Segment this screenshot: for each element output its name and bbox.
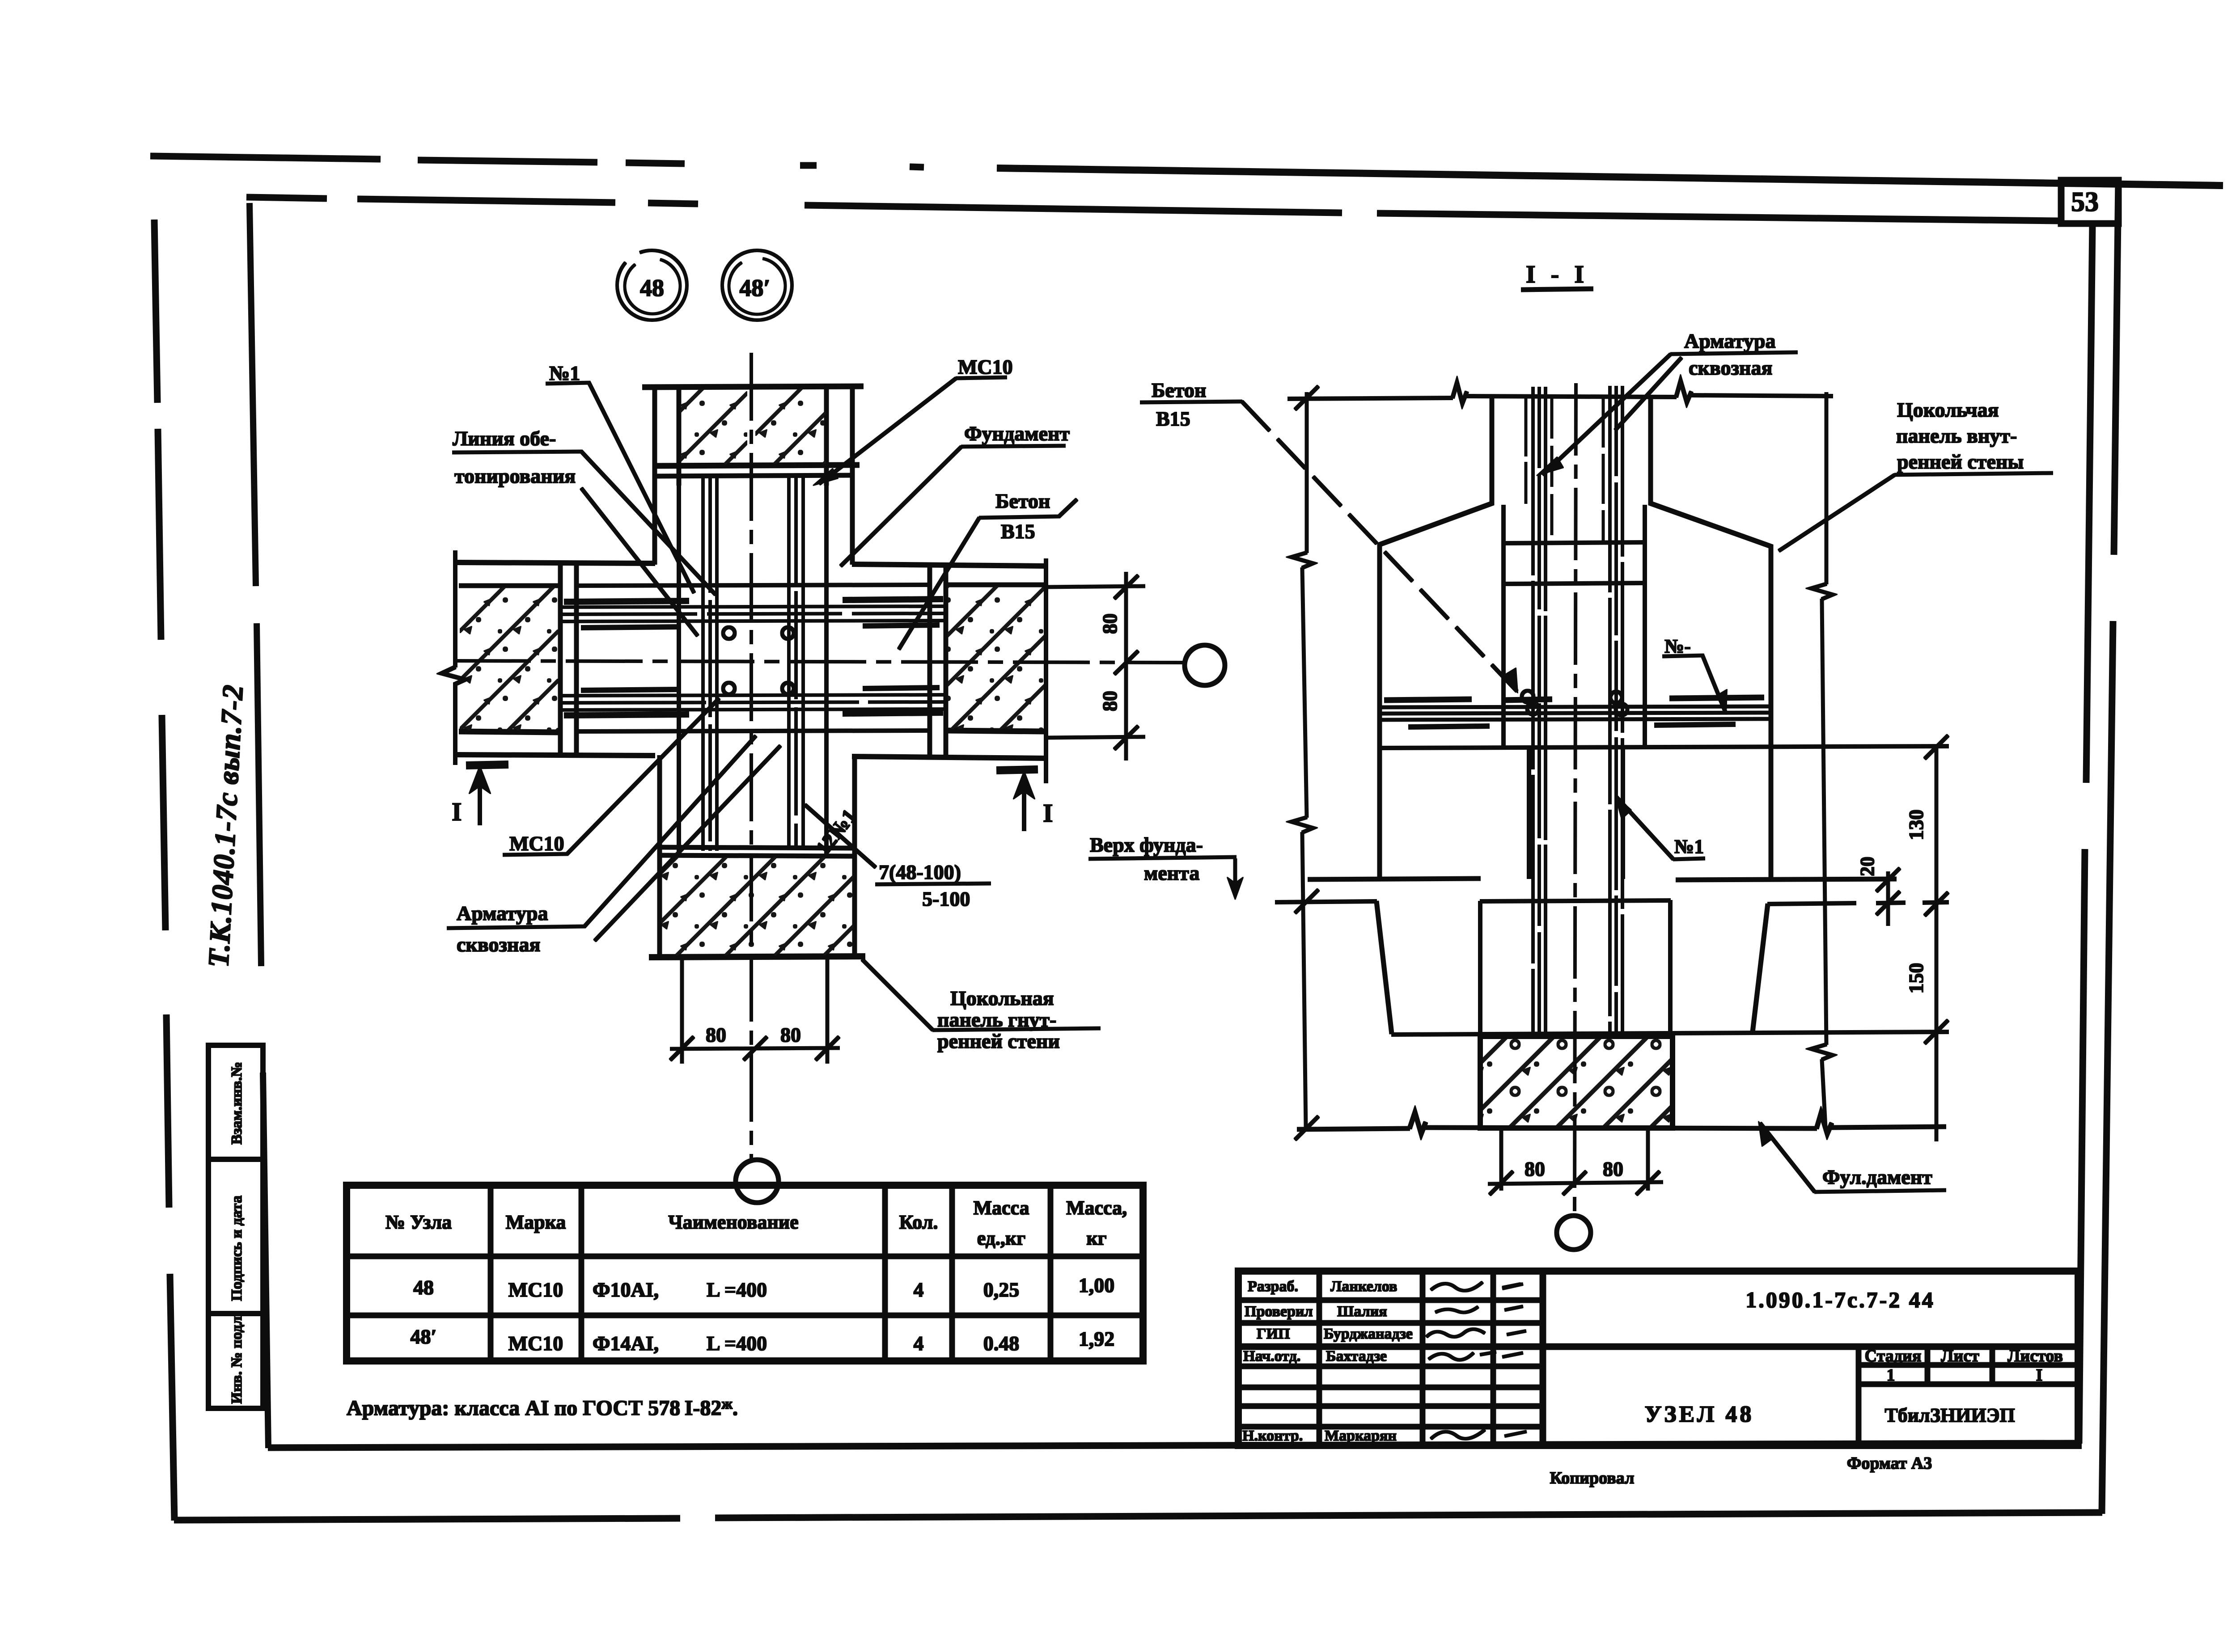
svg-text:МС10: МС10 bbox=[509, 832, 564, 855]
svg-text:Инв. № подл.: Инв. № подл. bbox=[229, 1313, 245, 1404]
svg-text:7(48-100): 7(48-100) bbox=[879, 861, 961, 883]
svg-text:ренней стены: ренней стены bbox=[1897, 450, 2024, 473]
svg-text:Фундамент: Фундамент bbox=[964, 422, 1070, 445]
svg-text:УЗЕЛ 48: УЗЕЛ 48 bbox=[1645, 1402, 1754, 1427]
svg-text:МС10: МС10 bbox=[508, 1332, 563, 1355]
svg-text:80: 80 bbox=[706, 1023, 726, 1046]
page number box 53 bbox=[2061, 180, 2118, 224]
section: dim 20 stub bbox=[1876, 868, 1900, 925]
section: foundation pit slope left bbox=[1376, 901, 1392, 1034]
svg-text:Кол.: Кол. bbox=[899, 1211, 938, 1233]
svg-text:МС10: МС10 bbox=[508, 1278, 563, 1301]
sheet outer bottom border bbox=[174, 1513, 2102, 1520]
signature squiggles bbox=[1427, 1282, 1526, 1439]
svg-text:48′: 48′ bbox=[739, 275, 770, 301]
plan label liniya obetonirovaniya bbox=[453, 427, 716, 636]
plan view: right arm outline bbox=[852, 564, 1046, 758]
section: ground top line bbox=[1288, 381, 1833, 403]
section: foundation slot wall right bbox=[1669, 900, 1672, 1035]
svg-text:Линия обе-: Линия обе- bbox=[453, 427, 556, 450]
svg-text:Цокольная: Цокольная bbox=[950, 987, 1054, 1010]
plan view: inner wall face lines across centre bbox=[576, 485, 930, 855]
svg-text:Стадия: Стадия bbox=[1865, 1347, 1922, 1365]
plan view: right 80+80 dimension bbox=[1046, 572, 1145, 760]
parts table grid bbox=[347, 1185, 1143, 1361]
svg-text:Н.контр.: Н.контр. bbox=[1242, 1428, 1303, 1444]
svg-text:Масса: Масса bbox=[973, 1197, 1029, 1219]
svg-text:Арматура: Арматура bbox=[1684, 330, 1776, 352]
svg-text:1,92: 1,92 bbox=[1079, 1327, 1115, 1350]
svg-text:L =400: L =400 bbox=[707, 1278, 767, 1301]
plan view: top arm outline bbox=[643, 386, 863, 564]
svg-text:Арматура: класса АІ по ГОСТ 57: Арматура: класса АІ по ГОСТ 578 І-82ж. bbox=[347, 1396, 738, 1420]
section: bottom ground line bbox=[1297, 1112, 1946, 1134]
plan view: rebar section dots bbox=[723, 627, 794, 694]
section: panel bottom left bbox=[1308, 879, 1480, 879]
section: panel neck left face bbox=[1380, 398, 1492, 879]
section label no1 upper bbox=[1663, 635, 1727, 714]
svg-text:Нач.отд.: Нач.отд. bbox=[1243, 1348, 1300, 1365]
svg-text:№ Узла: № Узла bbox=[385, 1211, 452, 1233]
plan view: horizontal centreline bbox=[454, 661, 1184, 663]
svg-text:Маркарян: Маркарян bbox=[1325, 1428, 1397, 1444]
svg-text:20: 20 bbox=[1856, 857, 1878, 876]
svg-text:0,25: 0,25 bbox=[983, 1278, 1020, 1301]
plan view: section mark I left bbox=[452, 765, 508, 826]
section: foundation top left bbox=[1275, 900, 1670, 902]
section label tsokolnaya panel right bbox=[1779, 398, 2053, 551]
plan label no.1 bbox=[546, 362, 694, 593]
plan view: joint through-rebar left bbox=[703, 476, 717, 850]
svg-text:Марка: Марка bbox=[506, 1211, 566, 1233]
svg-text:Арматура: Арматура bbox=[457, 902, 548, 925]
svg-text:Проверил: Проверил bbox=[1245, 1303, 1313, 1320]
plan label MS10 bottom bbox=[503, 698, 719, 855]
plan view: bottom 80+80 dimension bbox=[670, 959, 839, 1063]
section: foundation hatch block bbox=[1480, 1036, 1673, 1128]
svg-text:150: 150 bbox=[1905, 963, 1927, 994]
svg-text:48: 48 bbox=[640, 275, 664, 301]
section: through rebar left group bbox=[1533, 387, 1546, 1035]
section: lower cavity right wall bbox=[1621, 748, 1625, 879]
svg-text:48′: 48′ bbox=[411, 1325, 437, 1348]
section label beton B15 bbox=[1140, 379, 1518, 693]
svg-text:ед.,кг: ед.,кг bbox=[977, 1227, 1026, 1249]
plan label armatura skvoznaya bbox=[447, 736, 780, 956]
section: panel bottom right bbox=[1676, 879, 1896, 880]
plan view: left arm outline bbox=[456, 562, 655, 756]
plan view: top arm hatch right bbox=[756, 388, 826, 464]
plan view: right axis circle bbox=[1185, 645, 1225, 685]
section: pit bottom line bbox=[1392, 1032, 1948, 1035]
section: extra neck rebar lines bbox=[1526, 398, 1603, 541]
svg-text:Чаименование: Чаименование bbox=[668, 1211, 798, 1233]
svg-text:130: 130 bbox=[1905, 810, 1927, 841]
svg-text:80: 80 bbox=[1098, 691, 1121, 711]
plan view: upper horizontal rebar bundle bbox=[563, 599, 944, 628]
plan view: lower horizontal rebar bundle bbox=[563, 688, 944, 715]
plan view: bottom axis circle bbox=[736, 1160, 779, 1203]
plan label beton B15 bbox=[899, 490, 1077, 649]
left margin stamp box: podpis i data bbox=[208, 1159, 263, 1314]
title block stage header bbox=[1865, 1347, 2063, 1385]
svg-text:Формат А3: Формат А3 bbox=[1847, 1454, 1932, 1473]
svg-text:ренней стени: ренней стени bbox=[937, 1030, 1060, 1052]
svg-text:1.090.1-7с.7-2 44: 1.090.1-7с.7-2 44 bbox=[1745, 1287, 1935, 1312]
svg-text:4: 4 bbox=[914, 1278, 924, 1301]
svg-text:Ланкелов: Ланкелов bbox=[1330, 1278, 1397, 1295]
plan view: joint through-rebar right bbox=[789, 475, 803, 849]
section: band bottom line bbox=[1382, 746, 1948, 748]
section label armatura skvoznaya bbox=[1537, 330, 1797, 476]
plan view: section mark I right bbox=[997, 769, 1053, 831]
parts table row 1 bbox=[413, 1274, 1114, 1301]
svg-text:Лист: Лист bbox=[1941, 1347, 1979, 1365]
section: vertical centreline bbox=[1575, 384, 1576, 1214]
svg-text:№-: №- bbox=[1664, 635, 1691, 657]
section label fundament bbox=[1758, 1121, 1946, 1192]
plan view: top arm hatch left bbox=[680, 389, 747, 465]
svg-text:Бурджанадзе: Бурджанадзе bbox=[1324, 1326, 1413, 1342]
svg-text:80: 80 bbox=[780, 1023, 801, 1046]
svg-text:Копировал: Копировал bbox=[1550, 1469, 1635, 1487]
svg-text:В15: В15 bbox=[1001, 520, 1035, 543]
svg-text:мента: мента bbox=[1144, 862, 1199, 884]
plan view: left arm end extension line bbox=[442, 551, 465, 765]
drawing frame left line bbox=[250, 203, 268, 1448]
svg-text:Листов: Листов bbox=[2007, 1347, 2063, 1365]
section: left dimension line bbox=[1292, 386, 1318, 1140]
svg-text:80: 80 bbox=[1525, 1158, 1545, 1180]
svg-text:ТбилЗНИИЭП: ТбилЗНИИЭП bbox=[1885, 1404, 2015, 1426]
sheet outer left border bbox=[154, 220, 174, 1520]
svg-text:Верх фунда-: Верх фунда- bbox=[1090, 833, 1203, 856]
svg-text:Ф14АІ,: Ф14АІ, bbox=[593, 1332, 659, 1355]
section label verkh fundamenta bbox=[1089, 833, 1243, 900]
plan view: right arm hatch bbox=[947, 586, 1044, 730]
plan view: bottom arm outline bbox=[649, 756, 865, 957]
section: bottom axis circle bbox=[1557, 1216, 1591, 1250]
svg-text:I: I bbox=[452, 797, 462, 826]
svg-text:Бетон: Бетон bbox=[995, 490, 1050, 512]
svg-text:Разраб.: Разраб. bbox=[1248, 1278, 1298, 1295]
svg-text:4: 4 bbox=[914, 1332, 924, 1355]
svg-text:В15: В15 bbox=[1156, 407, 1190, 430]
svg-text:53: 53 bbox=[2071, 187, 2099, 217]
section: cavity cross line lower bbox=[1503, 583, 1645, 584]
drawing frame bottom line bbox=[268, 1443, 2079, 1448]
title block signature rows bbox=[1242, 1278, 1413, 1444]
section: far right dimension line bbox=[1925, 735, 1948, 1141]
plan label tsokolnaya panel bbox=[862, 959, 1100, 1052]
section label no1 lower bbox=[1615, 796, 1705, 859]
plan label fundament bbox=[841, 422, 1070, 566]
svg-text:№1: №1 bbox=[1674, 836, 1704, 858]
svg-text:48: 48 bbox=[413, 1276, 434, 1299]
left margin stamp box: vzam inv bbox=[208, 1045, 263, 1159]
plan view: vertical centreline bbox=[750, 353, 753, 1158]
section: cavity right wall bbox=[1643, 505, 1647, 747]
svg-text:Цокольчая: Цокольчая bbox=[1897, 398, 1999, 421]
section: band rebar circles bbox=[1522, 691, 1627, 715]
svg-text:Шалия: Шалия bbox=[1337, 1303, 1387, 1320]
section: middle rebar band bbox=[1382, 697, 1769, 727]
svg-text:МС10: МС10 bbox=[958, 355, 1013, 378]
svg-text:сквозная: сквозная bbox=[1689, 356, 1772, 379]
svg-text:5-100: 5-100 bbox=[922, 887, 970, 910]
node marker circle 48 bbox=[617, 250, 687, 320]
svg-text:80: 80 bbox=[1098, 613, 1121, 634]
svg-text:Бахтадзе: Бахтадзе bbox=[1326, 1348, 1387, 1365]
section: cavity left wall bbox=[1502, 505, 1505, 747]
svg-text:№1: №1 bbox=[549, 362, 580, 384]
svg-text:І: І bbox=[2036, 1366, 2043, 1385]
svg-text:панель внут-: панель внут- bbox=[1896, 424, 2017, 447]
section: cavity cross line upper bbox=[1503, 542, 1645, 543]
section: panel neck right face bbox=[1651, 397, 1771, 880]
section: through rebar right group bbox=[1610, 386, 1622, 1034]
parts table row 2 bbox=[411, 1325, 1115, 1355]
section: foundation pit slope right bbox=[1753, 904, 1768, 1032]
drawing frame top line bbox=[247, 197, 2061, 221]
svg-text:Ф10АІ,: Ф10АІ, bbox=[593, 1278, 659, 1301]
parts table header texts bbox=[385, 1197, 1127, 1249]
drawing frame right line bbox=[2079, 224, 2092, 1443]
svg-text:80: 80 bbox=[1603, 1158, 1623, 1180]
svg-text:L =400: L =400 bbox=[707, 1332, 767, 1355]
svg-text:Бетон: Бетон bbox=[1152, 379, 1206, 401]
plan label 7(48-100) bbox=[805, 805, 991, 910]
section: foundation top right bbox=[1768, 902, 1948, 904]
svg-text:Фул.дамент: Фул.дамент bbox=[1822, 1166, 1932, 1188]
section: right dimension line bbox=[1811, 393, 1833, 1128]
svg-text:Масса,: Масса, bbox=[1066, 1197, 1127, 1219]
left margin stamp box: inv no podl bbox=[208, 1313, 263, 1408]
node marker circle 48' bbox=[722, 250, 792, 320]
svg-text:I - I: I - I bbox=[1526, 261, 1588, 288]
sheet top edge broken line bbox=[151, 156, 2223, 186]
svg-text:кг: кг bbox=[1086, 1227, 1106, 1249]
svg-text:тонирования: тонирования bbox=[454, 465, 576, 487]
svg-text:1,00: 1,00 bbox=[1079, 1274, 1115, 1297]
sheet outer right border bbox=[2102, 181, 2118, 1513]
section: bottom 80+80 dimension bbox=[1488, 1129, 1663, 1195]
plan view: left arm hatch bbox=[460, 587, 558, 731]
plan view: bottom arm hatch bbox=[661, 857, 854, 956]
title block grid bbox=[1238, 1271, 2078, 1445]
svg-text:I: I bbox=[1043, 799, 1053, 828]
svg-text:Взам.инв.№: Взам.инв.№ bbox=[229, 1062, 245, 1145]
plan label MS10 top bbox=[813, 355, 1013, 486]
section: lower cavity left wall bbox=[1527, 748, 1531, 879]
plan view: right arm end extension line bbox=[1044, 559, 1048, 783]
svg-text:ГИП: ГИП bbox=[1257, 1326, 1290, 1342]
svg-text:1: 1 bbox=[1887, 1366, 1895, 1385]
svg-text:Подпись и дата: Подпись и дата bbox=[229, 1196, 245, 1301]
section title I-I bbox=[1521, 261, 1593, 290]
svg-text:сквозная: сквозная bbox=[457, 933, 540, 956]
svg-text:0.48: 0.48 bbox=[983, 1332, 1020, 1355]
section: foundation slot wall left bbox=[1478, 901, 1482, 1036]
